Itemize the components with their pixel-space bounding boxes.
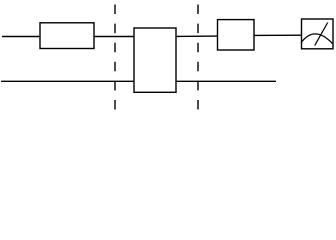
meter M1 needle: [315, 23, 328, 46]
dashed boundary line 2: [197, 5, 199, 110]
wire box1 to box2: [94, 36, 134, 38]
block box1: [40, 23, 94, 49]
wire bottom right segment: [177, 80, 277, 82]
block box2 (two-port): [134, 28, 176, 92]
wire input left: [2, 36, 40, 38]
meter M1 scale arc: [301, 34, 333, 44]
wire box2 to box3: [176, 35, 218, 37]
wire box3 to meter: [254, 34, 302, 36]
dashed boundary line 1: [114, 5, 116, 110]
block box3: [218, 20, 255, 50]
meter M1 box: [302, 19, 334, 49]
wire bottom left segment: [1, 80, 134, 82]
